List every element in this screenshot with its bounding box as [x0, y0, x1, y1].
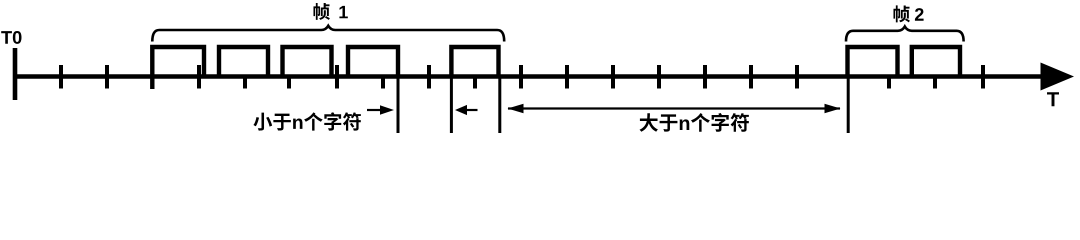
axis tick (below-axis only) x=289: [287, 77, 291, 89]
axis tick x=521: [519, 65, 523, 89]
frame1 pulse 2 (char): [219, 47, 268, 77]
frame1 pulse 1 (char): [152, 47, 204, 89]
frame1 pulse 4 (char): [348, 47, 398, 77]
axis tick x=337: [335, 65, 339, 89]
axis tick x=107: [105, 65, 109, 89]
frame2 pulse 2 (char): [912, 47, 960, 77]
drop line at pulse4 right edge: [397, 77, 400, 134]
axis tick (below-axis only) x=935: [933, 77, 937, 89]
label: less than n chars: [253, 112, 360, 130]
frame1 pulse 3 (char): [283, 47, 332, 77]
axis tick x=567: [565, 65, 569, 89]
label: greater than n chars: [640, 113, 749, 132]
label frame2 (zhen2): [893, 5, 923, 22]
label frame1 (zhen1): [313, 3, 347, 20]
axis tick (below-axis only) x=475: [473, 77, 477, 89]
axis tick x=983: [981, 65, 985, 89]
drop line at pulse5 right edge: [498, 77, 501, 134]
axis tick x=797: [795, 65, 799, 89]
frame2 pulse 1 (char): [848, 47, 898, 77]
arrow pointing right (less-than-n): [367, 109, 381, 111]
axis tick (below-axis only) x=383: [381, 77, 385, 89]
short arrow pointing left at pulse5 left edge: [466, 109, 478, 111]
frame 2 brace: [846, 27, 964, 42]
drop line at pulse5 left edge: [450, 77, 453, 134]
frame 1 brace: [152, 26, 504, 42]
axis tick x=659: [657, 65, 661, 89]
axis tick x=199: [197, 65, 201, 89]
axis tick (below-axis only) x=245: [243, 77, 247, 89]
drop line at frame2 start: [847, 77, 850, 134]
axis tick x=61: [59, 65, 63, 89]
time axis line: [13, 74, 1046, 79]
axis tick x=705: [703, 65, 707, 89]
axis tick x=751: [749, 65, 753, 89]
frame1 pulse 5 (char): [451, 47, 498, 77]
origin tick at T0: [13, 48, 18, 100]
axis tick x=613: [611, 65, 615, 89]
axis tick (below-axis only) x=889: [887, 77, 891, 89]
axis arrowhead: [1041, 63, 1075, 91]
label T at axis end: [1047, 92, 1059, 106]
axis tick x=429: [427, 65, 431, 89]
double-headed arrow (greater-than-n span): [508, 107, 840, 109]
label T0 at origin: [1, 31, 21, 44]
